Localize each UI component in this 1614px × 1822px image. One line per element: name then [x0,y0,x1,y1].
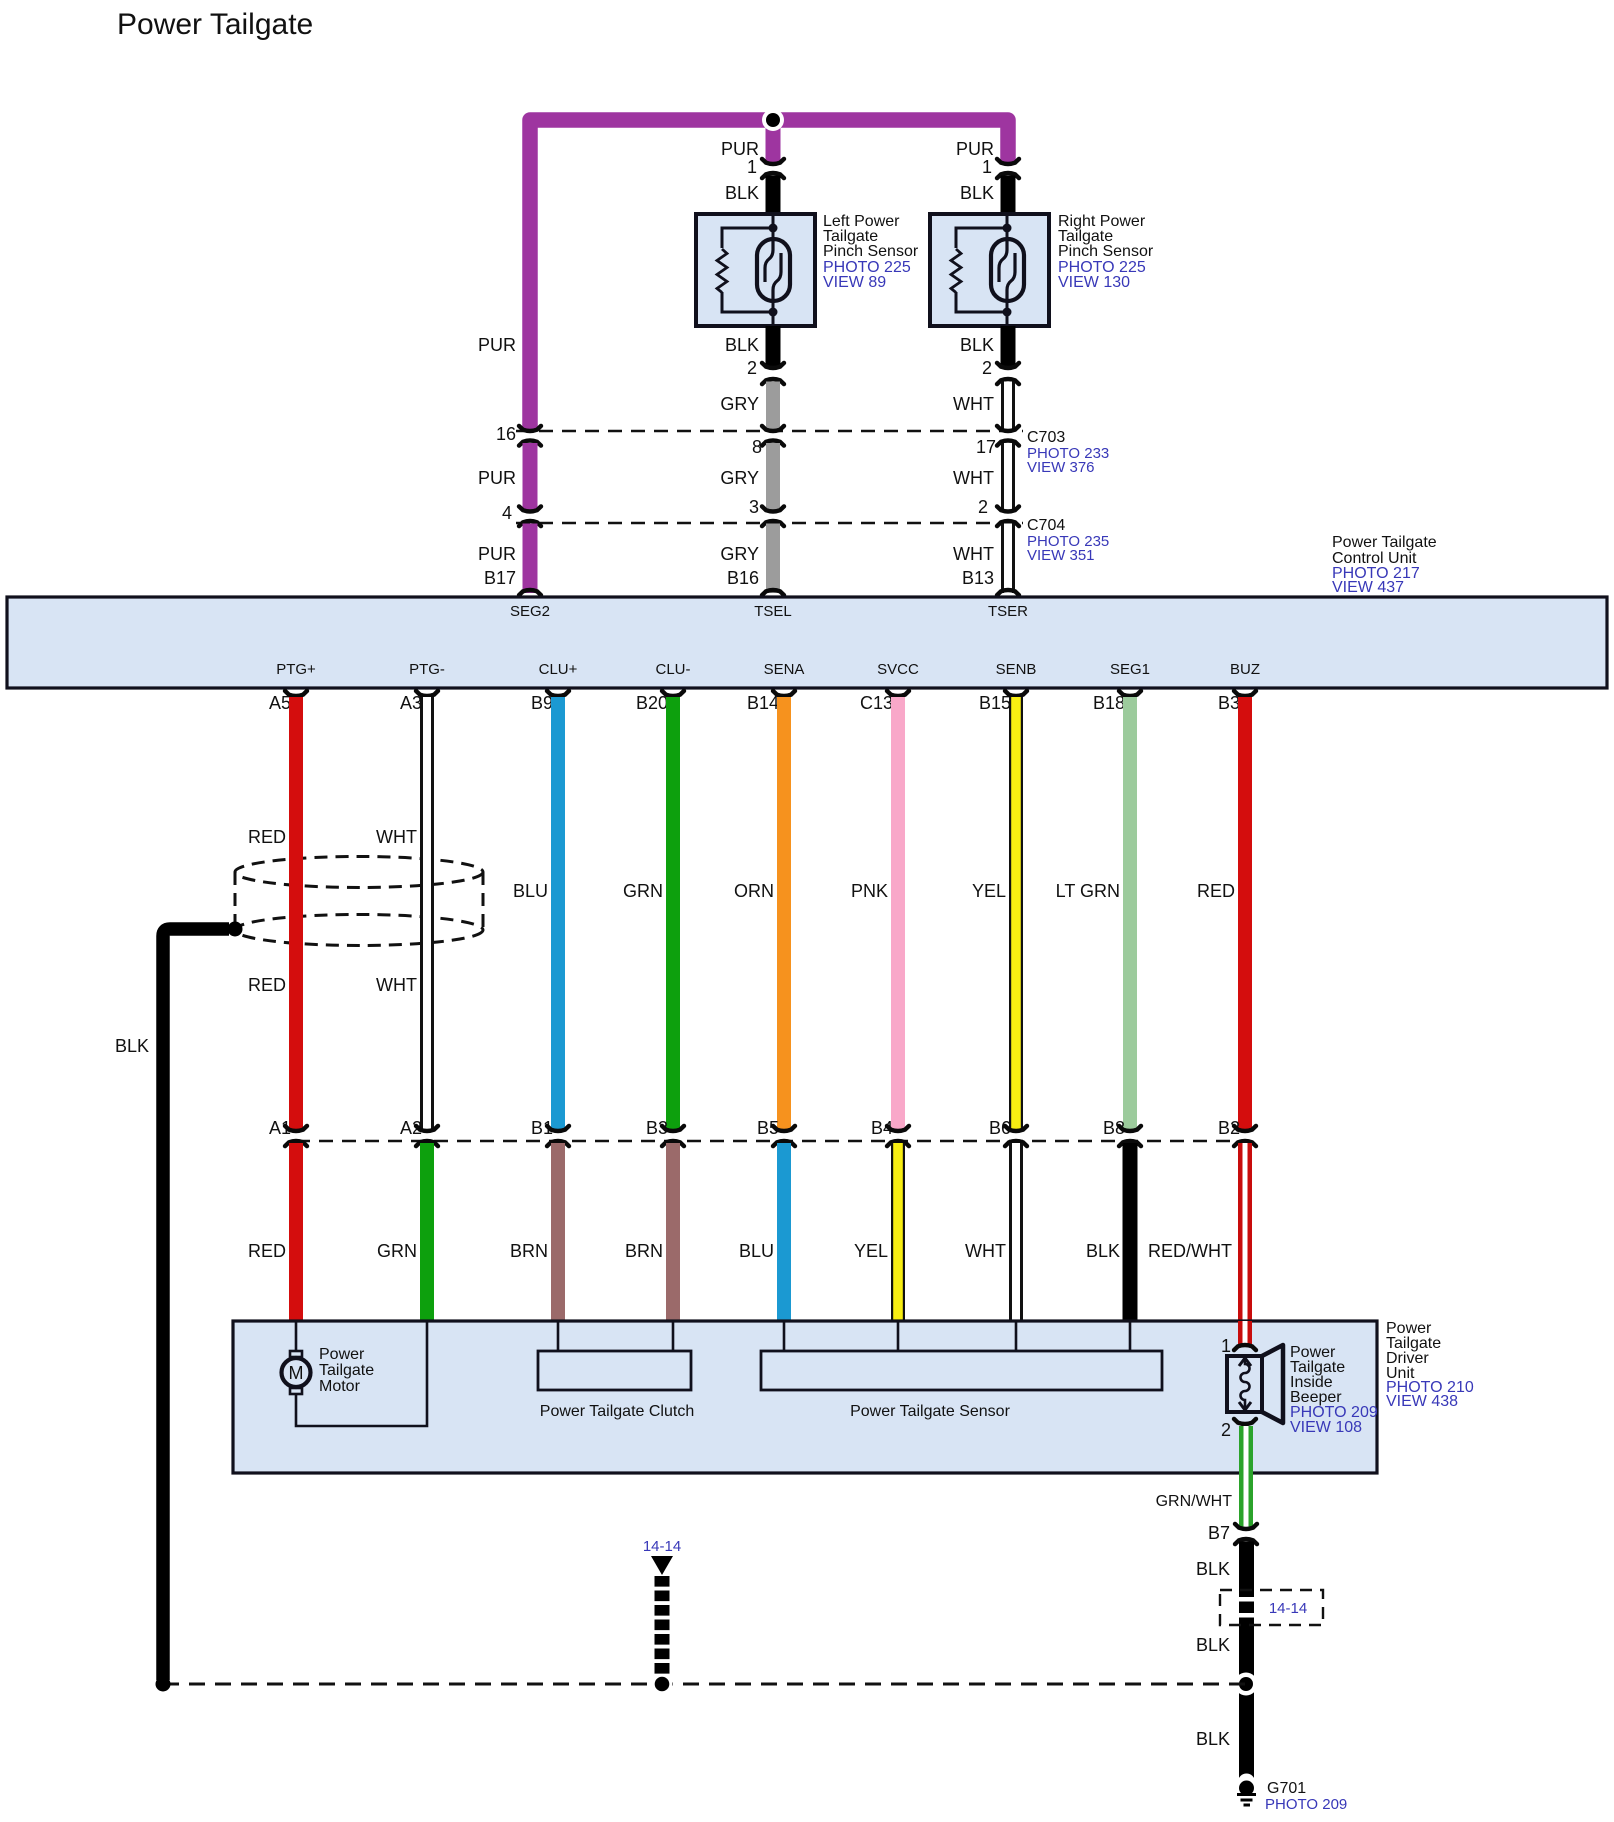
wire PUR to control unit [523,524,538,594]
label Power Tailgate Inside Beeper [1290,1344,1378,1436]
svg-text:B20: B20 [636,693,668,713]
svg-text:WHT: WHT [376,827,417,847]
node left wire end [156,1677,171,1692]
svg-text:Power Tailgate Sensor: Power Tailgate Sensor [850,1403,1010,1420]
terminal B16 [762,590,784,595]
svg-text:PUR: PUR [478,335,516,355]
svg-text:PNK: PNK [851,881,888,901]
svg-text:CLU-: CLU- [655,661,690,678]
svg-text:PHOTO 209: PHOTO 209 [1265,1796,1347,1813]
svg-text:RED: RED [1197,881,1235,901]
terminal beeper pin 1 [1234,1345,1256,1350]
wire BLU B5 lower [777,1143,791,1321]
wire PUR bus (top loop) [530,120,1008,429]
svg-text:Motor: Motor [319,1378,361,1395]
svg-text:B16: B16 [727,568,759,588]
connector C704 dashed line [516,522,1023,525]
component Power Tailgate Control Unit band [7,597,1607,688]
connector C704 terminals WHT [997,506,1019,511]
svg-text:WHT: WHT [965,1241,1006,1261]
svg-text:GRN/WHT: GRN/WHT [1156,1493,1233,1510]
svg-text:16: 16 [496,424,516,444]
svg-text:BLK: BLK [960,183,994,203]
connector B6 terminals [1005,1126,1027,1131]
node purple junction [762,109,784,131]
wire dashed ground bus [163,1683,1246,1686]
svg-text:TSEL: TSEL [754,603,792,620]
svg-text:GRN: GRN [377,1241,417,1261]
svg-text:GRY: GRY [720,394,759,414]
wire RED A5 [289,697,303,1129]
svg-text:RED/WHT: RED/WHT [1148,1241,1232,1261]
component Power Tailgate Driver Unit box [233,1321,1377,1473]
svg-text:G701: G701 [1267,1780,1306,1797]
svg-text:BLK: BLK [115,1036,149,1056]
connector row dashed line [296,1140,1245,1143]
terminal B17 [519,590,541,595]
svg-text:BLK: BLK [960,335,994,355]
svg-text:VIEW 437: VIEW 437 [1332,579,1404,596]
svg-text:RED: RED [248,975,286,995]
svg-text:VIEW 351: VIEW 351 [1027,547,1095,564]
svg-text:WHT: WHT [953,394,994,414]
ground G701 [1237,1774,1256,1807]
wire GRY upper [766,382,780,430]
wire GRY C703-C704 [766,443,780,510]
wire GRN A2 lower [420,1143,434,1321]
svg-text:BUZ: BUZ [1230,661,1260,678]
svg-text:C703: C703 [1027,429,1065,446]
svg-text:VIEW 376: VIEW 376 [1027,459,1095,476]
wire BRN B1 lower [551,1143,565,1321]
wire BLK below B7 [1239,1542,1254,1780]
svg-text:PUR: PUR [721,139,759,159]
wire WHT A3 [420,697,434,1129]
svg-text:2: 2 [1221,1420,1231,1440]
wire LT GRN B18 [1123,697,1137,1129]
svg-text:Pinch Sensor: Pinch Sensor [823,243,919,260]
wire BLU B9 [551,697,565,1129]
svg-text:B14: B14 [747,693,779,713]
svg-text:Power Tailgate Clutch: Power Tailgate Clutch [540,1403,694,1420]
svg-text:1: 1 [747,157,757,177]
wire BLK below right sensor [1001,326,1016,366]
wire motor feed (thin) [296,1321,427,1426]
svg-text:B18: B18 [1093,693,1125,713]
component left pinch sensor box [696,214,815,326]
label Power Tailgate Motor [319,1346,374,1395]
wire BRN B3 lower [666,1143,680,1321]
terminal B3 [1234,691,1256,696]
connector C703 dashed line [516,430,1023,433]
svg-text:Power: Power [319,1346,365,1363]
svg-text:3: 3 [749,497,759,517]
svg-text:WHT: WHT [953,468,994,488]
svg-text:VIEW 89: VIEW 89 [823,274,886,291]
label left pinch sensor [823,213,919,291]
buzzer Power Tailgate Inside Beeper [1227,1345,1283,1423]
node ground bus junction right [1235,1673,1258,1696]
svg-text:8: 8 [752,437,762,457]
terminal B9 [547,691,569,696]
labels PTG+ PTG- CLU+ CLU- SENA SVCC SENB SEG1 BUZ [276,661,1260,678]
terminal B18 [1119,691,1141,696]
terminal C13 [887,691,909,696]
connector pin 2 right sensor [997,363,1019,368]
connector B5 terminals [773,1126,795,1131]
wire segment WHT over ellipse [420,850,434,950]
svg-text:GRY: GRY [720,544,759,564]
wire GRN/WHT from beeper to B7 [1239,1426,1253,1527]
svg-text:LT GRN: LT GRN [1056,881,1120,901]
connector B3 terminals [662,1126,684,1131]
node shield junction [228,922,243,937]
svg-text:PTG+: PTG+ [276,661,316,678]
svg-text:2: 2 [982,358,992,378]
wire RED/WHT B2 lower [1238,1143,1252,1321]
svg-text:BLU: BLU [739,1241,774,1261]
wire BLK below left sensor [766,326,781,366]
svg-text:C13: C13 [860,693,893,713]
wire YEL B15 [1009,697,1023,1129]
wire clutch stubs (thin) [558,1321,673,1351]
component right pinch sensor box [930,214,1049,326]
svg-text:14-14: 14-14 [1269,1600,1307,1617]
svg-text:WHT: WHT [376,975,417,995]
svg-text:B15: B15 [979,693,1011,713]
wire BLK into right sensor [1001,176,1016,216]
svg-text:M: M [289,1363,304,1383]
svg-text:BLK: BLK [1196,1729,1230,1749]
svg-text:PUR: PUR [478,544,516,564]
svg-text:BLK: BLK [1086,1241,1120,1261]
wire sensor stubs (thin) [784,1321,1130,1351]
svg-text:RED: RED [248,1241,286,1261]
connector pin 1 right pinch sensor [997,159,1019,164]
svg-text:PUR: PUR [956,139,994,159]
pin labels A1..B2 [269,1118,1240,1138]
svg-text:SEG2: SEG2 [510,603,550,620]
svg-text:1: 1 [982,157,992,177]
svg-text:B13: B13 [962,568,994,588]
labels SEG2 TSEL TSER [510,603,1028,620]
wire PUR C703-C704 [523,443,538,510]
node mid junction [652,1674,673,1695]
connector pin 1 left pinch sensor [762,159,784,164]
connector B4 terminals [887,1126,909,1131]
svg-text:CLU+: CLU+ [539,661,578,678]
svg-text:VIEW 108: VIEW 108 [1290,1419,1362,1436]
label right pinch sensor [1058,213,1154,291]
wire BLK shield drain [163,929,229,1680]
shield ellipse (twisted pair) [235,857,483,946]
svg-text:SEG1: SEG1 [1110,661,1150,678]
component Power Tailgate Clutch box [538,1351,691,1390]
svg-text:TSER: TSER [988,603,1028,620]
connector C703 terminals PUR [519,426,541,431]
connector B7 terminals [1235,1524,1257,1529]
wire RED B3 [1238,697,1252,1129]
connector 14-14 dashed box [1220,1590,1323,1625]
svg-text:BRN: BRN [510,1241,548,1261]
wire RED/WHT into beeper [1238,1321,1252,1344]
labels wire colors mid [513,881,1235,901]
svg-text:Power Tailgate: Power Tailgate [117,8,313,41]
svg-text:SENA: SENA [764,661,805,678]
svg-text:SENB: SENB [996,661,1037,678]
wire BLK B8 lower [1123,1143,1138,1321]
connector B2 terminals [1234,1126,1256,1131]
terminal B20 [662,691,684,696]
connector pin 2 left sensor [762,363,784,368]
wire WHT C703-C704 [1001,443,1015,510]
wire ORN B14 [777,697,791,1129]
terminal B15 [1005,691,1027,696]
terminal A5 [285,691,307,696]
svg-text:Power Tailgate: Power Tailgate [1332,534,1437,551]
connector C703 terminals GRY [762,426,784,431]
svg-text:Pinch Sensor: Pinch Sensor [1058,243,1154,260]
wire GRN B20 [666,697,680,1129]
svg-text:WHT: WHT [953,544,994,564]
wire 14-14 dashed branch [655,1576,670,1676]
wire 14-14 branch triangle [651,1556,673,1575]
svg-text:ORN: ORN [734,881,774,901]
svg-text:GRY: GRY [720,468,759,488]
connector B8 terminals [1119,1126,1141,1131]
svg-text:17: 17 [976,437,996,457]
svg-text:BLK: BLK [725,183,759,203]
terminal beeper pin 2 [1234,1419,1256,1424]
svg-text:VIEW 438: VIEW 438 [1386,1393,1458,1410]
terminal A3 [416,691,438,696]
connector C704 terminals GRY [762,506,784,511]
wire WHT to control unit [1001,524,1015,594]
svg-text:B7: B7 [1208,1523,1230,1543]
connector A2 terminals [416,1126,438,1131]
wire BLK into left sensor [766,176,781,216]
svg-text:GRN: GRN [623,881,663,901]
wire RED A1 lower [289,1143,303,1321]
svg-text:1: 1 [1221,1336,1231,1356]
svg-text:BLK: BLK [1196,1635,1230,1655]
svg-text:SVCC: SVCC [877,661,919,678]
svg-text:Tailgate: Tailgate [319,1362,374,1379]
wire PNK C13 [891,697,905,1129]
terminal B14 [773,691,795,696]
svg-text:BLK: BLK [725,335,759,355]
wire GRY to control unit [766,524,780,594]
svg-text:YEL: YEL [972,881,1006,901]
svg-text:VIEW 130: VIEW 130 [1058,274,1130,291]
label Power Tailgate Driver Unit [1386,1320,1474,1410]
wire PUR stub to left pinch sensor [766,120,781,162]
component Power Tailgate Sensor box [761,1351,1162,1390]
svg-text:C704: C704 [1027,517,1065,534]
motor M1 Power Tailgate Motor [282,1351,311,1394]
svg-text:BRN: BRN [625,1241,663,1261]
svg-text:B17: B17 [484,568,516,588]
svg-text:14-14: 14-14 [643,1538,681,1555]
svg-text:BLK: BLK [1196,1559,1230,1579]
svg-text:2: 2 [978,497,988,517]
pin labels A5..B3 [269,693,1240,713]
wire YEL B4 lower [891,1143,905,1321]
svg-text:PUR: PUR [478,468,516,488]
wire segment RED over ellipse [289,850,303,950]
svg-text:2: 2 [747,358,757,378]
terminal B13 [997,590,1019,595]
label Power Tailgate Control Unit [1332,534,1437,596]
wire WHT B6 lower [1009,1143,1023,1321]
svg-text:4: 4 [502,503,512,523]
connector A1 terminals [285,1126,307,1131]
svg-text:YEL: YEL [854,1241,888,1261]
labels wire colors lower [248,1241,1232,1261]
svg-text:PTG-: PTG- [409,661,445,678]
connector C703 terminals WHT [997,426,1019,431]
svg-text:RED: RED [248,827,286,847]
wire WHT upper [1001,382,1015,430]
connector B1 terminals [547,1126,569,1131]
connector C704 terminals PUR [519,506,541,511]
svg-text:BLU: BLU [513,881,548,901]
